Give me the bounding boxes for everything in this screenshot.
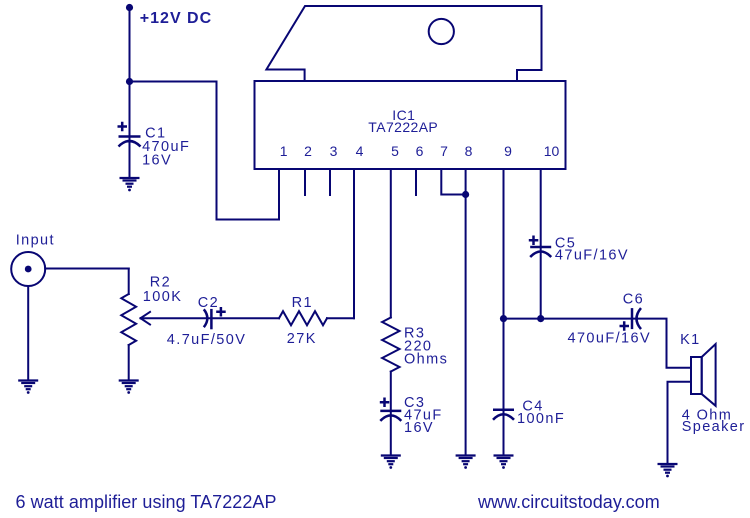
svg-text:100nF: 100nF <box>517 411 565 427</box>
svg-text:Input: Input <box>16 233 55 249</box>
svg-text:TA7222AP: TA7222AP <box>368 119 438 135</box>
svg-text:470uF/16V: 470uF/16V <box>568 331 652 347</box>
svg-text:3: 3 <box>330 143 338 159</box>
svg-text:6 watt amplifier using TA7222A: 6 watt amplifier using TA7222AP <box>16 492 277 512</box>
svg-text:8: 8 <box>465 143 473 159</box>
svg-text:9: 9 <box>504 143 512 159</box>
svg-text:27K: 27K <box>287 331 317 347</box>
svg-text:5: 5 <box>391 143 399 159</box>
svg-text:16V: 16V <box>142 153 172 169</box>
svg-text:16V: 16V <box>404 420 434 436</box>
svg-text:Speaker: Speaker <box>682 419 746 435</box>
svg-text:R1: R1 <box>292 295 313 311</box>
svg-text:+12V DC: +12V DC <box>140 10 212 27</box>
svg-text:4.7uF/50V: 4.7uF/50V <box>167 332 247 348</box>
svg-text:C6: C6 <box>623 292 644 308</box>
svg-text:7: 7 <box>440 143 448 159</box>
svg-text:www.circuitstoday.com: www.circuitstoday.com <box>477 492 660 512</box>
svg-text:100K: 100K <box>143 289 182 305</box>
svg-text:47uF/16V: 47uF/16V <box>555 248 629 264</box>
svg-text:C2: C2 <box>198 295 219 311</box>
svg-text:10: 10 <box>544 143 560 159</box>
svg-text:4: 4 <box>356 143 364 159</box>
svg-text:6: 6 <box>416 143 424 159</box>
svg-text:K1: K1 <box>680 332 701 348</box>
svg-text:2: 2 <box>304 143 312 159</box>
svg-text:Ohms: Ohms <box>404 352 448 368</box>
svg-text:1: 1 <box>280 143 288 159</box>
